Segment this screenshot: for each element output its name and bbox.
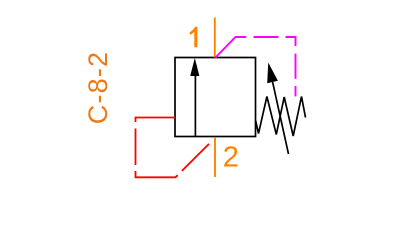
svg-text:C-8-2: C-8-2 (83, 51, 113, 125)
svg-text:2: 2 (223, 141, 239, 173)
